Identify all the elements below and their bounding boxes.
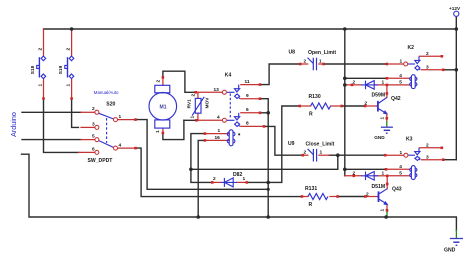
- svg-text:2: 2: [366, 191, 369, 197]
- svg-text:1: 1: [400, 150, 403, 156]
- svg-text:4: 4: [399, 73, 402, 79]
- svg-text:Manual/Auto: Manual/Auto: [94, 90, 119, 95]
- svg-text:2: 2: [304, 150, 307, 156]
- svg-text:Arduino: Arduino: [9, 112, 18, 137]
- svg-text:S18: S18: [30, 65, 36, 74]
- svg-text:3: 3: [92, 121, 95, 127]
- svg-text:1: 1: [119, 114, 122, 120]
- svg-text:6: 6: [92, 146, 95, 152]
- svg-text:Open_Limit: Open_Limit: [308, 50, 336, 56]
- svg-text:1: 1: [380, 117, 386, 120]
- svg-text:R130: R130: [309, 94, 321, 100]
- svg-text:U8: U8: [289, 50, 296, 56]
- svg-text:2: 2: [426, 143, 429, 149]
- svg-text:Close_Limit: Close_Limit: [306, 142, 335, 148]
- svg-text:RV1: RV1: [187, 99, 193, 109]
- svg-text:D51M: D51M: [372, 184, 386, 190]
- svg-text:1: 1: [243, 176, 246, 182]
- svg-text:K3: K3: [406, 137, 413, 143]
- svg-text:MOV: MOV: [205, 97, 211, 109]
- svg-text:1: 1: [319, 59, 322, 65]
- svg-text:S20: S20: [106, 101, 115, 107]
- svg-text:R: R: [309, 112, 313, 118]
- svg-text:+12V: +12V: [449, 6, 461, 11]
- svg-text:8: 8: [246, 121, 249, 127]
- svg-text:2: 2: [92, 106, 95, 112]
- svg-text:5: 5: [92, 133, 95, 139]
- svg-text:D82: D82: [233, 172, 243, 178]
- svg-text:13: 13: [214, 87, 220, 93]
- svg-text:2: 2: [38, 48, 44, 51]
- svg-text:R131: R131: [305, 186, 317, 192]
- svg-text:9: 9: [246, 93, 249, 99]
- svg-text:D59M: D59M: [372, 93, 386, 99]
- svg-text:11: 11: [245, 79, 250, 85]
- svg-text:GND: GND: [374, 135, 385, 140]
- svg-text:K4: K4: [225, 73, 232, 79]
- svg-text:3: 3: [426, 155, 429, 161]
- svg-text:1: 1: [66, 84, 72, 87]
- svg-text:M1: M1: [160, 104, 167, 110]
- svg-text:2: 2: [304, 59, 307, 65]
- svg-text:2: 2: [353, 170, 356, 176]
- svg-text:1: 1: [218, 128, 221, 134]
- svg-text:Q42: Q42: [391, 96, 401, 102]
- svg-text:U9: U9: [288, 141, 295, 147]
- svg-text:2: 2: [353, 80, 356, 86]
- svg-text:4: 4: [399, 164, 402, 170]
- svg-text:3: 3: [426, 65, 429, 71]
- svg-text:4: 4: [217, 115, 220, 121]
- svg-text:1: 1: [380, 209, 386, 212]
- svg-text:SW_DPDT: SW_DPDT: [88, 158, 114, 164]
- svg-text:1: 1: [38, 84, 44, 87]
- svg-text:1: 1: [382, 170, 385, 176]
- svg-text:R: R: [309, 202, 313, 208]
- svg-text:16: 16: [215, 135, 221, 141]
- svg-text:4: 4: [119, 142, 122, 148]
- svg-text:Q43: Q43: [392, 187, 402, 193]
- svg-text:1: 1: [190, 116, 196, 119]
- svg-text:6: 6: [246, 107, 249, 113]
- svg-text:2: 2: [191, 94, 197, 97]
- svg-text:2: 2: [213, 176, 216, 182]
- svg-text:K2: K2: [408, 45, 415, 51]
- svg-text:5: 5: [399, 171, 402, 177]
- svg-text:2: 2: [426, 51, 429, 57]
- svg-text:1: 1: [400, 59, 403, 65]
- svg-text:1: 1: [382, 80, 385, 86]
- svg-text:1: 1: [320, 150, 323, 156]
- svg-text:S19: S19: [58, 65, 64, 74]
- svg-text:1: 1: [155, 130, 161, 133]
- svg-text:2: 2: [365, 101, 368, 107]
- svg-text:2: 2: [66, 48, 72, 51]
- svg-text:5: 5: [399, 80, 402, 86]
- svg-text:2: 2: [156, 80, 162, 83]
- svg-text:GND: GND: [444, 248, 456, 254]
